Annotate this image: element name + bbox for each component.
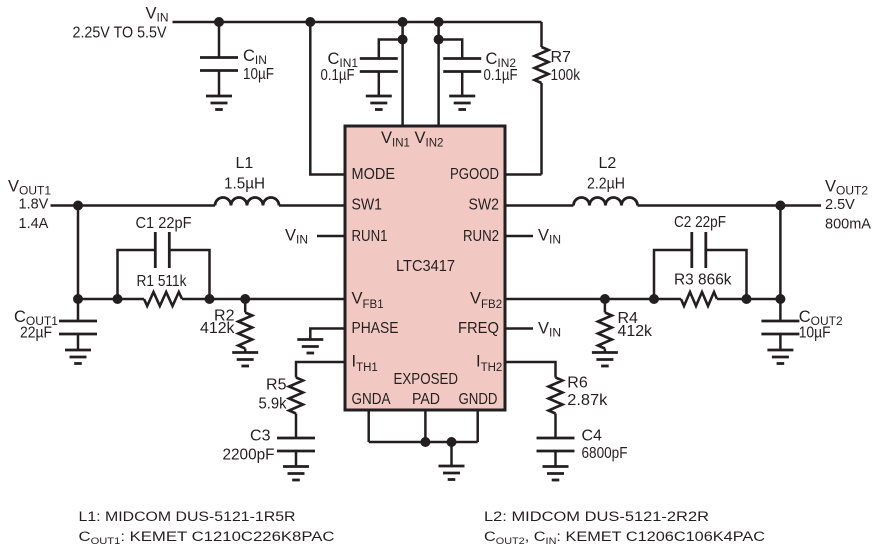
svg-text:2200pF: 2200pF <box>223 447 275 464</box>
junction FB2-C2 right <box>742 294 752 304</box>
resistor R3 <box>681 292 717 306</box>
svg-text:2.5V: 2.5V <box>825 197 855 213</box>
svg-text:L2: L2 <box>599 155 617 172</box>
wire ITH2 pin to R6 <box>505 362 556 378</box>
pin label GNDA <box>352 391 391 408</box>
R4 value label 412k <box>618 310 653 340</box>
junction VOUT1 <box>73 201 83 211</box>
svg-text:FREQ: FREQ <box>458 320 499 337</box>
COUT2 value label 10uF <box>799 308 843 342</box>
svg-text:COUT1: KEMET C1210C226K8PAC: COUT1: KEMET C1210C226K8PAC <box>79 529 335 546</box>
svg-text:C1 22pF: C1 22pF <box>136 215 192 232</box>
svg-text:VIN: VIN <box>538 227 561 247</box>
caption COUT2 CIN part number <box>484 529 765 546</box>
node VOUT1 label <box>8 178 51 233</box>
ground COUT2 <box>767 350 793 364</box>
pin label ITH1 <box>352 353 378 375</box>
inductor L1 <box>215 198 279 206</box>
svg-text:800mA: 800mA <box>825 217 871 233</box>
svg-text:L1: MIDCOM DUS-5121-1R5R: L1: MIDCOM DUS-5121-1R5R <box>79 509 296 524</box>
wire FREQ pin stub <box>505 327 533 330</box>
junction VIN-MODE riser <box>305 17 315 27</box>
svg-text:C3: C3 <box>250 428 271 445</box>
pin label SW1 <box>352 197 383 214</box>
svg-text:PGOOD: PGOOD <box>450 166 499 183</box>
CIN value label 10uF <box>243 47 274 83</box>
wire VIN rail to VIN2 pin <box>437 22 440 126</box>
wire RUN2 pin stub <box>505 235 533 238</box>
inductor L2 <box>574 198 638 206</box>
svg-text:SW1: SW1 <box>352 197 383 214</box>
wire VOUT2 down to FB2 node <box>779 206 782 300</box>
svg-text:C2 22pF: C2 22pF <box>674 214 726 231</box>
svg-text:22µF: 22µF <box>20 325 52 342</box>
pin label ITH2 <box>476 353 502 375</box>
pin label VFB1 <box>352 290 384 312</box>
ground R2 <box>232 353 258 367</box>
junction FB1-C1 right <box>205 294 215 304</box>
RUN1 net label VIN <box>285 227 308 247</box>
ground CIN2 <box>449 96 475 110</box>
svg-text:VOUT1: VOUT1 <box>8 178 51 198</box>
pin label PHASE <box>352 320 399 337</box>
wire GNDA stub <box>367 410 370 442</box>
wire ground bus <box>369 441 478 444</box>
wire PAD stub <box>424 410 427 442</box>
junction FB1-C1 left <box>113 294 123 304</box>
wire L1 to SW1 pin <box>279 204 345 207</box>
wire VIN label to RUN1 pin <box>317 235 345 238</box>
wire PHASE pin to ground <box>310 329 345 340</box>
svg-text:1.8V: 1.8V <box>19 197 49 213</box>
resistor R2 <box>238 299 252 353</box>
node VIN label <box>146 5 169 25</box>
R2 value label 412k <box>200 308 235 338</box>
C4 value label 6800pF <box>582 428 628 463</box>
R5 value label 5.9k <box>259 377 288 413</box>
resistor R1 <box>144 292 182 306</box>
junction VIN-VIN2 <box>434 17 444 27</box>
R3 value label 866k <box>674 272 732 289</box>
wire FB2 node line <box>505 298 780 301</box>
ground PHASE <box>297 340 323 354</box>
ground C4 <box>543 467 569 481</box>
pin label SW2 <box>469 197 500 214</box>
svg-text:GNDA: GNDA <box>352 391 391 408</box>
wire SW2 pin to L2 <box>505 204 574 207</box>
C2 value label 22pF <box>674 214 726 231</box>
IC label EXPOSED PAD <box>394 371 459 408</box>
pin label VFB2 <box>470 290 502 312</box>
capacitor CIN2 <box>439 40 482 97</box>
FREQ net label VIN <box>538 320 561 340</box>
svg-text:10µF: 10µF <box>799 325 831 342</box>
svg-text:100k: 100k <box>551 67 581 84</box>
R7 value label 100k <box>551 49 581 84</box>
CIN2 value label 0.1uF <box>484 50 518 84</box>
ground IC bus <box>439 442 465 480</box>
capacitor C2 <box>654 232 747 299</box>
svg-text:412k: 412k <box>200 320 235 337</box>
svg-text:L1: L1 <box>236 155 254 172</box>
svg-text:R1 511k: R1 511k <box>137 273 188 290</box>
svg-text:GNDD: GNDD <box>459 391 498 408</box>
capacitor COUT1 <box>59 299 97 350</box>
junction VOUT2 <box>775 201 785 211</box>
svg-text:2.2µH: 2.2µH <box>587 176 625 193</box>
svg-text:RUN2: RUN2 <box>463 228 499 245</box>
svg-text:VIN: VIN <box>538 320 561 340</box>
svg-text:VIN: VIN <box>146 5 169 25</box>
capacitor C3 <box>277 438 315 467</box>
L2 value label 2.2uH <box>587 155 625 193</box>
svg-text:L2: MIDCOM DUS-5121-2R2R: L2: MIDCOM DUS-5121-2R2R <box>484 509 709 524</box>
capacitor C1 <box>118 232 210 299</box>
svg-text:VOUT2: VOUT2 <box>825 178 868 198</box>
junction CIN2 tap <box>434 35 444 45</box>
IC U1 LTC3417 body <box>345 126 505 410</box>
junction FB2-C2 left <box>649 294 659 304</box>
svg-text:COUT2, CIN: KEMET C1206C106K4P: COUT2, CIN: KEMET C1206C106K4PAC <box>484 529 765 546</box>
junction PAD-bus <box>420 437 430 447</box>
junction FB2-COUT2 <box>775 294 785 304</box>
junction FB1-R2 <box>240 294 250 304</box>
svg-text:1.4A: 1.4A <box>19 216 49 232</box>
svg-text:1.5µH: 1.5µH <box>224 176 265 193</box>
wire VIN rail to VIN1 pin <box>401 22 404 126</box>
resistor R5 <box>289 378 303 439</box>
pin label RUN1 <box>352 228 388 245</box>
wire VIN rail <box>173 21 542 24</box>
svg-text:0.1µF: 0.1µF <box>321 67 355 84</box>
ground R4 <box>592 353 618 367</box>
ground CIN1 <box>366 96 392 110</box>
svg-text:6800pF: 6800pF <box>582 445 628 462</box>
caption COUT1 part number <box>79 529 335 546</box>
wire GNDD stub <box>476 410 479 442</box>
junction VIN-VIN1 <box>398 17 408 27</box>
svg-text:RUN1: RUN1 <box>352 228 388 245</box>
junction CIN1 tap <box>398 35 408 45</box>
pin label GNDD <box>459 391 498 408</box>
pin label VIN2 <box>415 129 444 150</box>
wire FB1 node line <box>78 298 345 301</box>
svg-text:LTC3417: LTC3417 <box>396 258 455 275</box>
CIN1 value label 0.1uF <box>321 50 359 84</box>
IC part number LTC3417 <box>396 258 455 275</box>
caption L1 part number <box>79 509 296 524</box>
svg-text:5.9k: 5.9k <box>259 396 288 413</box>
resistor R7 <box>535 22 549 175</box>
wire VOUT1 down to FB1 node <box>77 206 80 300</box>
ground CIN <box>206 96 232 110</box>
svg-text:EXPOSED: EXPOSED <box>394 371 459 388</box>
wire R7 to PGOOD pin <box>505 173 542 176</box>
resistor R4 <box>598 299 612 353</box>
COUT1 value label 22uF <box>14 308 58 342</box>
C3 value label 2200pF <box>223 428 275 464</box>
wire VIN rail to MODE pin <box>310 22 345 175</box>
C1 value label 22pF <box>136 215 192 232</box>
svg-text:MODE: MODE <box>352 166 396 183</box>
pin label FREQ <box>458 320 499 337</box>
node VOUT2 label <box>825 178 871 233</box>
ground C3 <box>283 467 309 481</box>
svg-text:R6: R6 <box>567 375 588 392</box>
R1 value label 511k <box>137 273 188 290</box>
svg-text:SW2: SW2 <box>469 197 500 214</box>
wire ITH1 pin to R5 <box>296 362 345 378</box>
svg-text:R3 866k: R3 866k <box>674 272 732 289</box>
ground COUT1 <box>65 350 91 364</box>
resistor R6 <box>549 378 563 439</box>
caption L2 part number <box>484 509 709 524</box>
VIN range label 2.25V TO 5.5V <box>73 25 167 42</box>
svg-text:10µF: 10µF <box>243 66 274 83</box>
RUN2 net label VIN <box>538 227 561 247</box>
junction VIN-CIN <box>214 17 224 27</box>
capacitor CIN1 <box>360 40 403 97</box>
svg-text:412k: 412k <box>618 323 653 340</box>
capacitor CIN <box>200 22 238 96</box>
pin label PGOOD <box>450 166 499 183</box>
L1 value label 1.5uH <box>224 155 265 193</box>
svg-text:PAD: PAD <box>412 391 440 408</box>
R6 value label 2.87k <box>567 375 608 410</box>
wire VOUT1 to L1 <box>51 204 216 207</box>
junction ground tap <box>447 437 457 447</box>
svg-text:R5: R5 <box>266 377 287 394</box>
svg-text:R7: R7 <box>551 49 572 66</box>
svg-text:PHASE: PHASE <box>352 320 399 337</box>
svg-text:2.87k: 2.87k <box>567 392 608 409</box>
pin label VIN1 <box>381 129 410 150</box>
wire L2 to VOUT2 <box>638 204 822 207</box>
svg-text:2.25V TO 5.5V: 2.25V TO 5.5V <box>73 25 167 42</box>
svg-text:CIN: CIN <box>243 47 267 67</box>
junction FB1-VOUT1 <box>73 294 83 304</box>
svg-text:C4: C4 <box>582 428 603 445</box>
junction FB2-R4 <box>600 294 610 304</box>
svg-text:VIN: VIN <box>285 227 308 247</box>
capacitor COUT2 <box>761 299 799 350</box>
pin label MODE <box>352 166 396 183</box>
pin label RUN2 <box>463 228 499 245</box>
svg-text:0.1µF: 0.1µF <box>484 67 518 84</box>
capacitor C4 <box>537 438 575 467</box>
